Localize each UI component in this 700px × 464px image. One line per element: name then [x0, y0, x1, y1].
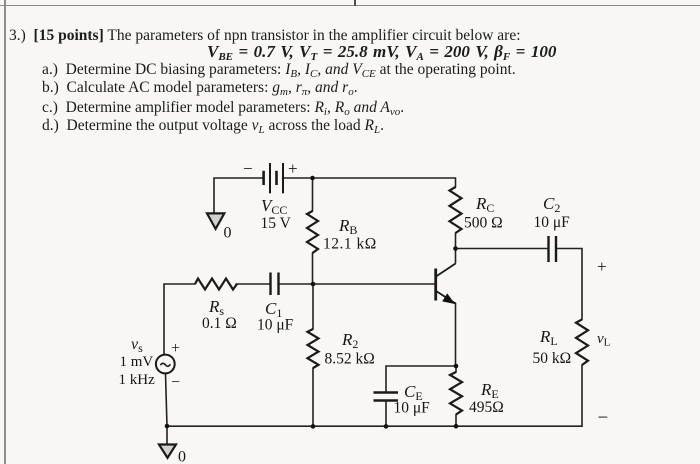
svg-text:0: 0	[178, 449, 186, 464]
wire R2 bottom lead	[312, 368, 314, 426]
wire collector vertical	[455, 249, 457, 263]
svg-text:+: +	[288, 159, 298, 178]
svg-text:10 μF: 10 μF	[394, 400, 431, 417]
svg-text:10 μF: 10 μF	[534, 214, 571, 231]
wire left rail down to source	[163, 284, 165, 355]
wire emitter vertical	[455, 303, 457, 366]
resistor RL	[576, 320, 588, 366]
svg-text:R2: R2	[341, 330, 358, 351]
svg-text:vs: vs	[131, 336, 143, 355]
label plus output	[597, 257, 607, 276]
resistor RB	[307, 211, 318, 253]
svg-text:RC: RC	[475, 194, 494, 215]
svg-text:495Ω: 495Ω	[469, 399, 504, 416]
junction bottom-left node	[165, 424, 170, 429]
wire RL bottom lead	[581, 365, 583, 426]
label vs frequency	[119, 372, 156, 388]
label battery minus	[243, 159, 253, 178]
label node 0 bottom	[178, 449, 186, 464]
wire RB bottom lead to base rail	[312, 253, 314, 284]
label VCC	[261, 196, 287, 217]
ground bottom (node 0)	[159, 445, 176, 458]
label RC value	[464, 215, 503, 232]
label Rs value	[202, 315, 237, 332]
svg-text:1 mV: 1 mV	[120, 354, 154, 370]
label RC	[475, 194, 494, 215]
label minus output	[598, 408, 609, 429]
junction CE-bottom node	[384, 424, 389, 429]
label source plus	[171, 340, 180, 357]
label C1 value	[257, 317, 294, 334]
wire RB top lead	[312, 178, 314, 211]
svg-text:RL: RL	[539, 327, 558, 348]
svg-text:12.1 kΩ: 12.1 kΩ	[323, 236, 377, 253]
wire RC top lead	[455, 178, 457, 187]
label battery plus	[288, 159, 298, 178]
label C2	[543, 194, 560, 215]
wire Rs to C1	[236, 283, 270, 285]
junction RE-bottom node	[454, 424, 459, 429]
label node 0 top	[224, 225, 232, 242]
svg-text:−: −	[243, 159, 253, 178]
wire source to bottom rail	[166, 373, 168, 445]
problem text	[9, 27, 521, 45]
svg-text:−: −	[171, 374, 180, 391]
wire CE bottom lead	[385, 401, 387, 427]
svg-text:VCC: VCC	[261, 196, 287, 217]
resistor Rs	[195, 279, 237, 290]
svg-text:15 V: 15 V	[261, 215, 292, 232]
label R2	[341, 330, 358, 351]
wire bottom rail	[167, 425, 582, 427]
label RL	[539, 327, 558, 348]
svg-text:RB: RB	[338, 216, 357, 237]
wire collector node to C2	[456, 248, 549, 250]
label RB value	[323, 236, 377, 253]
ground top (node 0)	[207, 213, 224, 229]
label RE value	[469, 399, 504, 416]
label CE value	[394, 400, 431, 417]
junction emitter node	[454, 364, 459, 369]
resistor RE	[450, 372, 462, 415]
wire top rail battery to RC	[283, 177, 456, 179]
label RE	[480, 380, 499, 401]
svg-text:500 Ω: 500 Ω	[464, 215, 503, 232]
label R2 value	[325, 351, 375, 368]
transistor Q1	[436, 264, 456, 304]
source vs	[156, 355, 175, 374]
svg-text:10 μF: 10 μF	[257, 317, 294, 334]
junction R2-bottom node	[311, 424, 316, 429]
label RB	[338, 216, 357, 237]
svg-text:0.1 Ω: 0.1 Ω	[202, 315, 237, 332]
junction collector node	[453, 246, 458, 251]
wire RE top lead	[455, 366, 457, 372]
wire C2 to right corner and down to RL	[556, 249, 582, 320]
label Rs	[208, 297, 224, 318]
svg-text:0: 0	[224, 225, 232, 242]
resistor RC	[450, 187, 462, 233]
label VCC value 15 V	[261, 215, 292, 232]
svg-text:C2: C2	[543, 194, 560, 215]
svg-text:1 kHz: 1 kHz	[119, 372, 156, 388]
label C2 value	[534, 214, 571, 231]
junction battery-RB node	[310, 176, 315, 181]
wire base rail left segment	[164, 283, 195, 285]
label vs amplitude	[120, 354, 154, 370]
label vs	[131, 336, 143, 355]
wire RE bottom lead	[455, 415, 457, 427]
wire emitter rail to CE	[386, 366, 456, 393]
resistor R2	[308, 329, 319, 368]
svg-text:+: +	[171, 340, 180, 357]
label source minus	[171, 374, 180, 391]
capacitor C1	[271, 273, 279, 296]
junction base node	[311, 282, 316, 287]
wire R2 top lead	[312, 284, 314, 329]
label RL value	[533, 350, 572, 367]
label CE	[404, 382, 423, 403]
battery VCC	[264, 163, 283, 193]
wire RC bottom lead to collector node	[455, 233, 457, 249]
label vL	[597, 331, 611, 349]
svg-text:8.52 kΩ: 8.52 kΩ	[325, 351, 375, 368]
svg-text:−: −	[598, 408, 609, 429]
svg-text:vL: vL	[597, 331, 611, 349]
label C1	[265, 299, 282, 320]
svg-text:50 kΩ: 50 kΩ	[533, 350, 572, 367]
capacitor C2	[549, 236, 557, 262]
wire top-left from battery to ground drop	[214, 178, 264, 213]
wire C1 to transistor base	[279, 283, 436, 285]
capacitor CE	[374, 393, 399, 401]
svg-text:+: +	[597, 257, 607, 276]
svg-text:RE: RE	[480, 380, 499, 401]
